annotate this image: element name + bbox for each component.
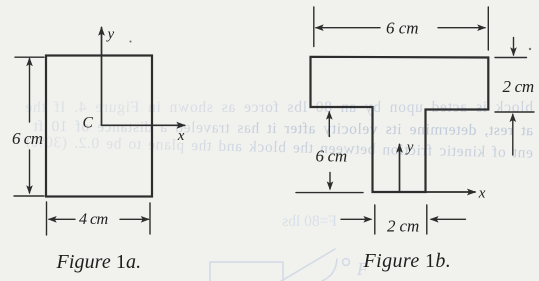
4 cm dimension, below Figure 1a [47,202,151,235]
ink speck right margin [529,48,531,50]
y-axis (Figure 1b) [396,143,403,192]
bleed-through line 2 (mirrored verso text) [22,118,533,140]
y-axis (Figure 1a) [98,26,105,125]
6 cm dimension, above Figure 1b [314,7,489,50]
svg-text:x: x [478,186,486,202]
svg-text:y: y [106,27,115,43]
rectangle outline (Figure 1a body, 4cm x 6cm) [46,56,152,197]
x-axis (Figure 1b) [426,189,477,196]
bleed-through force label F=80 lbs (mirrored) [270,213,337,231]
svg-text:6 cm: 6 cm [12,129,43,148]
T-shape outline (Figure 1b) [311,57,489,192]
bleed-through line 1 (mirrored verso text) [22,99,533,117]
svg-text:6 cm: 6 cm [386,19,419,38]
fade overlay dimming verso bleed on the left half [0,90,300,165]
bleed-through line 3 (mirrored verso text) [22,133,533,162]
svg-text:2 cm: 2 cm [503,77,534,96]
ink speck near y-axis label (Figure 1a) [130,41,132,43]
2 cm dimension, below Figure 1b stem [341,205,466,234]
caption Figure 1a [57,251,142,274]
svg-text:4 cm: 4 cm [79,210,109,228]
svg-text:2 cm: 2 cm [387,217,419,236]
2 cm dimension, right of Figure 1b flange [495,38,534,156]
6 cm dimension, left of Figure 1b stem [296,111,363,193]
svg-text:6 cm: 6 cm [316,147,347,166]
caption Figure 1b [364,250,452,273]
svg-text:x: x [177,128,185,144]
bleed-through Figure 4 sketch (block on incline, mirrored) [210,249,350,281]
6 cm dimension, left of Figure 1a [14,57,44,196]
svg-text:C: C [83,115,94,132]
svg-text:y: y [405,140,414,156]
x-axis (Figure 1a) [102,122,187,129]
